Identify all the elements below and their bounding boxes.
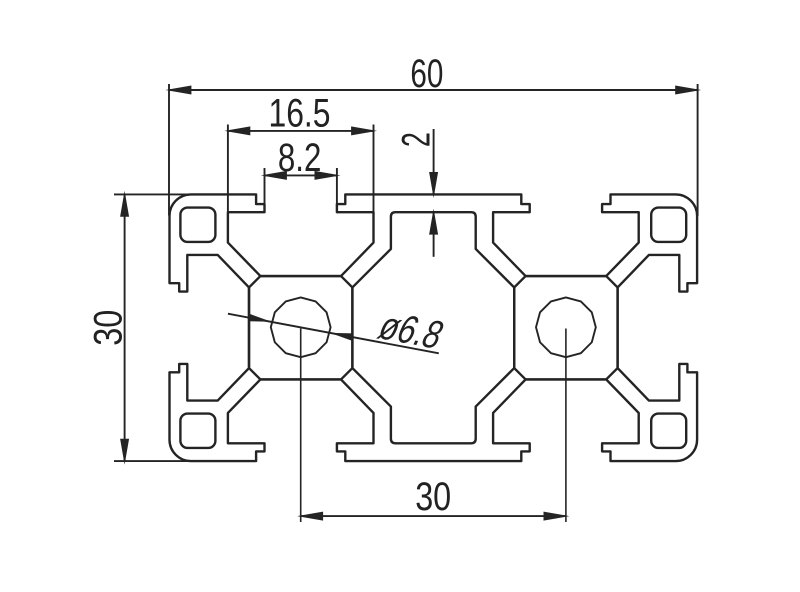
centreline left bore: [300, 329, 302, 523]
dim 2 upper line with down arrow: [433, 129, 435, 194]
right module centre cavity octagon: [514, 276, 617, 379]
top-right corner screw channel: [651, 208, 686, 242]
profile outline: [170, 194, 698, 461]
svg-text:16.5: 16.5: [269, 92, 331, 136]
dia 6.8 arrows: [248, 314, 271, 322]
dim 30 bottom arrows: [297, 512, 323, 521]
bottom-left corner screw channel: [180, 414, 215, 448]
dim 60 line: [169, 89, 698, 91]
svg-text:ø6.8: ø6.8: [372, 303, 451, 357]
svg-text:30: 30: [87, 310, 131, 346]
middle cavity: [352, 212, 514, 443]
dim 30 left line: [124, 194, 126, 461]
right core bore circle: [536, 297, 596, 357]
dim 8.2 extension lines: [264, 168, 266, 206]
dim 8.2 arrows: [261, 171, 287, 180]
dim 30 left arrows: [120, 191, 129, 217]
svg-text:60: 60: [410, 52, 443, 96]
centreline right bore: [565, 329, 567, 523]
dim 16.5 arrows: [224, 126, 250, 135]
dim 30 left extension lines: [114, 193, 191, 195]
left module centre cavity octagon: [249, 276, 352, 379]
svg-text:8.2: 8.2: [278, 136, 322, 180]
dim 30 bottom line: [301, 515, 566, 517]
bottom-right corner screw channel: [651, 414, 686, 448]
svg-text:30: 30: [415, 475, 451, 519]
top-left corner screw channel: [180, 208, 215, 242]
dim 16.5 line: [228, 130, 374, 132]
dim 8.2 line: [265, 174, 337, 176]
dia 6.8 leader line: [228, 314, 439, 354]
dim 16.5 extension lines: [227, 125, 229, 213]
dim 60 arrows: [165, 86, 191, 95]
svg-text:2: 2: [395, 132, 439, 147]
left core bore circle: [271, 297, 331, 357]
dim 60 extension lines: [168, 84, 170, 216]
dim 2 lower line with up arrow: [433, 212, 435, 257]
